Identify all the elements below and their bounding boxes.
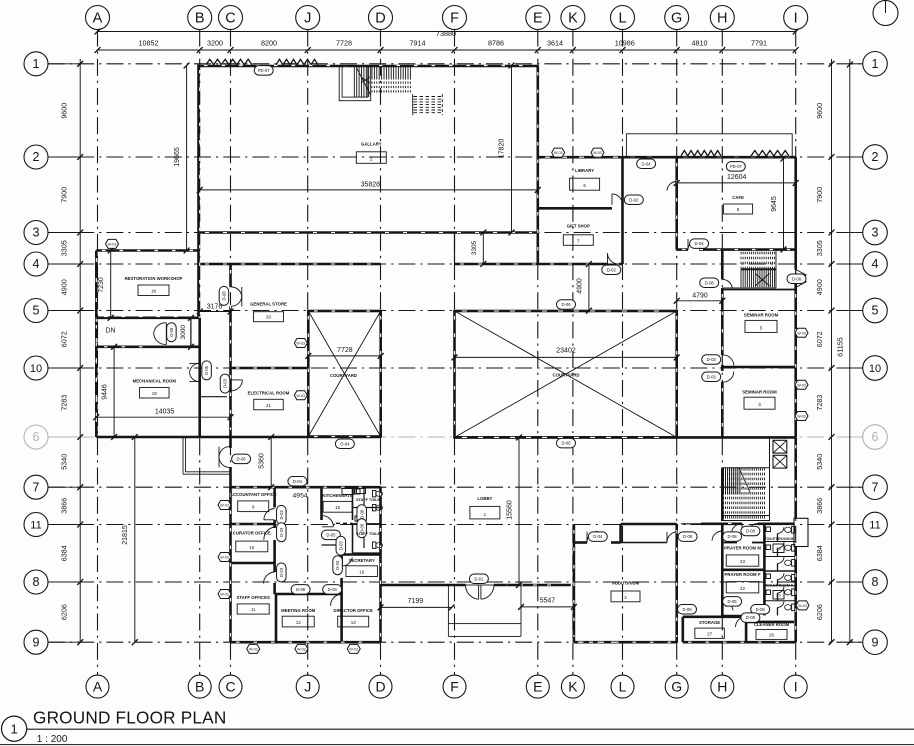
auditorium east wall column G — [675, 524, 678, 642]
svg-text:STORAGE: STORAGE — [699, 620, 720, 625]
svg-text:61155: 61155 — [835, 337, 844, 356]
door kitchenette — [322, 516, 334, 527]
svg-text:1 : 200: 1 : 200 — [37, 734, 68, 745]
svg-text:4954: 4954 — [293, 493, 308, 500]
north arrow symbol — [873, 0, 898, 26]
svg-text:W-03: W-03 — [297, 342, 306, 346]
room storage — [695, 620, 725, 638]
offices corridor west wall — [273, 487, 276, 594]
svg-text:1: 1 — [33, 57, 40, 71]
svg-text:D-08: D-08 — [222, 291, 227, 301]
dim 12604 cafe — [674, 174, 799, 186]
svg-text:TOILET ROOM M: TOILET ROOM M — [765, 537, 794, 541]
svg-text:D: D — [375, 678, 385, 694]
room prayer F — [725, 572, 761, 593]
restoration workshop north wall — [96, 249, 198, 252]
svg-text:L: L — [618, 11, 626, 27]
svg-text:D-03: D-03 — [335, 560, 340, 570]
svg-text:G: G — [671, 11, 682, 27]
door tags horizontal — [232, 66, 806, 623]
row4 wall F-L giftshop south — [455, 263, 623, 266]
east stair exit bump — [794, 518, 808, 546]
svg-text:5: 5 — [33, 304, 40, 318]
svg-text:7728: 7728 — [336, 39, 352, 48]
row2 wall library & cafe front — [538, 156, 796, 159]
left grid bubbles — [24, 52, 80, 654]
svg-text:1: 1 — [872, 57, 879, 71]
door prayer M — [732, 523, 743, 534]
svg-text:W-03: W-03 — [797, 415, 806, 419]
entry vestibule rows6-7 — [183, 437, 231, 474]
dim 14035 mech — [93, 409, 233, 421]
auditorium north wall — [574, 541, 621, 544]
dim 4954 text — [293, 493, 308, 500]
svg-text:10: 10 — [249, 545, 255, 550]
svg-text:I: I — [794, 678, 798, 694]
west wall column B rows 1-5 — [197, 65, 200, 317]
wall column B rows5-6 — [198, 318, 201, 437]
svg-text:D-05: D-05 — [326, 533, 336, 538]
svg-text:W-03: W-03 — [797, 331, 806, 335]
svg-text:D-04: D-04 — [340, 441, 350, 446]
svg-text:D-08: D-08 — [746, 615, 756, 620]
dim 9446 — [102, 344, 118, 440]
svg-text:3176: 3176 — [207, 303, 223, 310]
svg-text:13: 13 — [351, 620, 357, 625]
svg-text:A: A — [93, 678, 103, 694]
label toilet room F — [765, 584, 794, 600]
svg-text:E: E — [533, 11, 543, 27]
exterior top wall B-E — [200, 65, 538, 68]
svg-text:ELECTRICAL ROOM: ELECTRICAL ROOM — [248, 390, 290, 395]
svg-text:AUDITORIUM: AUDITORIUM — [612, 581, 640, 586]
door gift shop — [608, 253, 619, 264]
library-giftshop divider — [538, 194, 623, 209]
svg-text:W-03: W-03 — [349, 647, 358, 651]
kitchenette west wall — [320, 487, 323, 515]
svg-text:CLEANER ROOM: CLEANER ROOM — [754, 622, 790, 627]
svg-text:PRAYER ROOM F: PRAYER ROOM F — [725, 572, 761, 577]
svg-text:3: 3 — [872, 226, 879, 240]
room gallery — [356, 142, 386, 164]
svg-text:D-08: D-08 — [728, 534, 738, 539]
door cafe south — [688, 239, 699, 250]
entrance double door — [465, 585, 494, 599]
column grid lines A B C J D F E K L G H I — [98, 30, 796, 676]
svg-text:23402: 23402 — [556, 348, 576, 355]
svg-text:14035: 14035 — [155, 409, 175, 416]
svg-text:24: 24 — [776, 546, 781, 551]
svg-text:6384: 6384 — [815, 545, 824, 561]
svg-text:12604: 12604 — [727, 174, 747, 181]
svg-text:D-08: D-08 — [682, 607, 692, 612]
svg-text:B: B — [195, 11, 205, 27]
svg-text:GROUND FLOOR PLAN: GROUND FLOOR PLAN — [33, 708, 226, 728]
dim 35828 gallery — [197, 182, 541, 193]
window tags W-03 — [106, 239, 810, 653]
washroom north wall row11 — [681, 523, 794, 525]
svg-text:SEMINAR ROOM: SEMINAR ROOM — [744, 313, 779, 318]
secretary room walls — [342, 555, 381, 595]
curator south wall — [231, 562, 275, 565]
gallery stair — [339, 66, 442, 116]
door library — [612, 194, 623, 205]
room auditorium — [611, 581, 640, 602]
door general store — [231, 287, 242, 306]
meeting room west wall — [275, 594, 278, 642]
dim 19665 — [174, 63, 190, 254]
svg-text:10: 10 — [30, 363, 42, 375]
washroom toilets — [766, 527, 795, 616]
room electrical — [248, 390, 290, 410]
cafe south wall — [677, 248, 796, 251]
column F wall rows3-4 — [454, 233, 456, 265]
svg-text:B: B — [195, 678, 204, 694]
svg-text:6: 6 — [33, 430, 40, 444]
svg-text:J: J — [304, 678, 311, 694]
svg-text:D-05: D-05 — [756, 607, 766, 612]
svg-text:27: 27 — [707, 631, 713, 636]
svg-text:PD-07: PD-07 — [730, 164, 743, 169]
room staff offices — [237, 595, 270, 614]
svg-text:D-03: D-03 — [279, 567, 284, 577]
svg-text:9600: 9600 — [60, 103, 69, 119]
courtyard 2 with X — [455, 311, 677, 437]
svg-text:W-03: W-03 — [554, 151, 563, 155]
seminar divider wall row10 — [722, 366, 795, 369]
svg-text:D-03: D-03 — [223, 378, 228, 388]
label DN — [105, 328, 115, 335]
room seminar1 — [744, 313, 779, 333]
svg-text:CURATOR OFFICE: CURATOR OFFICE — [233, 531, 271, 536]
room seminar2 — [742, 390, 777, 410]
svg-text:21: 21 — [266, 403, 272, 408]
dim 4790 — [674, 292, 725, 303]
door cleaner — [748, 523, 758, 533]
kitchenette counter — [342, 489, 366, 495]
svg-text:21815: 21815 — [122, 525, 129, 545]
dim 3000 — [180, 315, 194, 350]
svg-text:LOBBY: LOBBY — [477, 496, 492, 501]
door seminar1 — [722, 355, 734, 366]
svg-text:W-03: W-03 — [108, 242, 117, 246]
svg-text:35828: 35828 — [361, 182, 381, 189]
dim 9645 cafe — [771, 156, 786, 253]
svg-text:D-08: D-08 — [746, 529, 756, 534]
svg-text:7: 7 — [872, 480, 879, 494]
door mech B — [189, 363, 199, 381]
svg-text:10986: 10986 — [615, 39, 635, 48]
svg-text:C: C — [225, 11, 235, 27]
east wall column I rows6-9 — [794, 437, 797, 642]
svg-text:D-03: D-03 — [279, 510, 284, 520]
svg-text:3200: 3200 — [207, 39, 223, 48]
right grid bubbles — [850, 52, 888, 655]
svg-text:7199: 7199 — [408, 598, 424, 605]
svg-text:2: 2 — [33, 150, 40, 164]
room cafe — [724, 195, 753, 214]
svg-text:7283: 7283 — [60, 395, 69, 411]
bottom grid bubbles — [86, 675, 807, 698]
svg-text:W-03: W-03 — [297, 394, 306, 398]
svg-text:7900: 7900 — [815, 187, 824, 203]
svg-text:D-05: D-05 — [204, 365, 209, 375]
cafe west wall column G — [675, 157, 678, 249]
shaft boxes — [773, 440, 787, 468]
stair landing wall seminar — [722, 289, 795, 291]
dim 5547 — [518, 598, 577, 610]
svg-text:D-04: D-04 — [642, 161, 652, 166]
svg-text:TOILET ROOM F: TOILET ROOM F — [765, 584, 794, 588]
row grid lines 1 2 3 4 5 10 6 7 11 8 9 — [48, 64, 863, 642]
svg-text:6206: 6206 — [815, 604, 824, 620]
svg-text:GIFT SHOP: GIFT SHOP — [567, 223, 590, 228]
svg-text:H: H — [717, 11, 727, 27]
storage west wall — [681, 617, 684, 642]
svg-text:PRAYER ROOM M: PRAYER ROOM M — [724, 545, 761, 550]
door secretary — [342, 558, 353, 567]
svg-text:17820: 17820 — [499, 139, 506, 159]
svg-text:C: C — [225, 678, 235, 694]
svg-text:I: I — [794, 11, 798, 27]
washroom south walls — [683, 615, 794, 642]
prayer M north wall — [722, 542, 764, 544]
svg-text:8200: 8200 — [261, 39, 277, 48]
column H wall rows4-6 — [721, 249, 724, 437]
svg-text:D-06: D-06 — [237, 457, 247, 462]
offices north wall row7 — [231, 486, 381, 489]
door washroom west1 — [712, 531, 722, 541]
svg-text:W-03: W-03 — [297, 647, 306, 651]
east stair rows3-4 — [722, 250, 776, 288]
svg-text:1: 1 — [10, 722, 17, 737]
svg-text:3866: 3866 — [815, 498, 824, 514]
svg-text:K: K — [568, 678, 578, 694]
door tags vertical — [167, 286, 367, 582]
cafe canopy outline — [626, 134, 792, 157]
svg-text:DIRECTOR OFFICE: DIRECTOR OFFICE — [334, 608, 373, 613]
svg-text:H: H — [717, 678, 727, 694]
door corridor G row3 — [667, 181, 677, 190]
svg-text:W-03: W-03 — [220, 556, 229, 560]
dim 21815 — [122, 434, 138, 645]
svg-text:W-03: W-03 — [249, 647, 258, 651]
column C wall rows6-9 — [229, 437, 232, 642]
door stairE west — [722, 279, 732, 287]
svg-text:ACCOUNTANT OFFICE: ACCOUNTANT OFFICE — [230, 492, 277, 497]
svg-text:F: F — [450, 11, 459, 27]
grand stair — [722, 437, 769, 521]
svg-text:D-03: D-03 — [279, 527, 284, 537]
svg-text:K: K — [568, 11, 578, 27]
svg-text:12: 12 — [296, 620, 302, 625]
svg-text:3000: 3000 — [180, 325, 187, 340]
right dimension lines 61155 — [815, 59, 853, 645]
svg-text:W-03: W-03 — [220, 504, 229, 508]
svg-text:7728: 7728 — [337, 347, 353, 354]
svg-text:DN: DN — [105, 328, 115, 335]
zigzag glazing top wall west group — [206, 59, 252, 65]
dim 3176 — [197, 303, 234, 314]
svg-text:LIBRARY: LIBRARY — [575, 168, 594, 173]
svg-text:3305: 3305 — [60, 240, 69, 256]
svg-text:STAFF TOILET: STAFF TOILET — [356, 498, 383, 502]
window tag hexagons on row2 wall — [552, 148, 604, 157]
svg-text:4790: 4790 — [692, 292, 708, 299]
svg-text:20: 20 — [266, 315, 272, 320]
auditorium vestibule — [621, 524, 677, 543]
staff toilet walls — [353, 487, 381, 553]
svg-text:22: 22 — [740, 586, 746, 591]
room restoration workshop — [125, 276, 183, 296]
svg-text:7283: 7283 — [815, 395, 824, 411]
door workshop double — [154, 323, 167, 345]
svg-text:9645: 9645 — [771, 196, 778, 212]
dim 3305 interior — [471, 230, 486, 267]
closet walls by workshop — [190, 318, 192, 347]
svg-text:23: 23 — [740, 559, 746, 564]
svg-text:9: 9 — [872, 635, 879, 649]
washroom west wall H — [721, 523, 724, 616]
dim 15560 — [507, 434, 522, 587]
svg-text:D-04: D-04 — [695, 241, 705, 246]
svg-text:GALLARY: GALLARY — [361, 142, 382, 147]
svg-text:26: 26 — [769, 632, 775, 637]
south wall auditorium-washrooms row9 — [683, 641, 796, 644]
room mechanical — [133, 379, 177, 399]
row3 wall B-E — [200, 231, 538, 234]
svg-text:COURTYARD: COURTYARD — [330, 373, 357, 378]
courtyard2 label — [552, 372, 579, 377]
svg-text:7900: 7900 — [60, 187, 69, 203]
dim 17820 — [499, 63, 515, 236]
svg-text:10: 10 — [869, 363, 881, 375]
svg-text:W-03: W-03 — [797, 383, 806, 387]
svg-text:D-06: D-06 — [561, 441, 571, 446]
svg-text:W-03: W-03 — [220, 593, 229, 597]
svg-text:KITCHENNATE: KITCHENNATE — [322, 493, 353, 498]
svg-text:18: 18 — [151, 289, 157, 294]
svg-text:RESTORATION WORKSHOP: RESTORATION WORKSHOP — [125, 276, 183, 281]
svg-text:15: 15 — [335, 505, 341, 510]
svg-text:9: 9 — [33, 635, 40, 649]
room director — [334, 608, 373, 627]
svg-text:D-08: D-08 — [359, 509, 364, 519]
dim 7728 courtyard1 — [305, 347, 383, 359]
svg-text:5360: 5360 — [259, 453, 266, 469]
room cleaner — [754, 622, 790, 640]
svg-text:4: 4 — [872, 257, 879, 271]
row6 wall F-I — [455, 436, 796, 439]
svg-text:15560: 15560 — [507, 500, 514, 520]
svg-text:SEMINAR ROOM: SEMINAR ROOM — [742, 390, 777, 395]
svg-text:8: 8 — [33, 575, 40, 589]
auditorium west wall — [573, 524, 576, 642]
door seminar2 — [722, 372, 734, 383]
column C wall rows4-6 — [229, 264, 232, 437]
svg-text:D-03: D-03 — [707, 374, 717, 379]
svg-text:D-03: D-03 — [328, 587, 338, 592]
svg-text:D-04: D-04 — [293, 479, 303, 484]
room prayer M — [724, 545, 761, 566]
svg-text:D-06: D-06 — [561, 302, 571, 307]
svg-text:3866: 3866 — [60, 498, 69, 514]
svg-text:4810: 4810 — [692, 39, 708, 48]
svg-text:D-02: D-02 — [629, 197, 639, 202]
door director — [330, 594, 341, 606]
top segment dimensions — [95, 39, 799, 53]
svg-text:D-05: D-05 — [338, 540, 343, 550]
mechanical room north wall — [96, 345, 198, 348]
room kitchennate — [322, 493, 353, 512]
svg-text:19: 19 — [152, 391, 158, 396]
door storage — [736, 617, 747, 627]
svg-text:D-03: D-03 — [707, 357, 717, 362]
label toilet room M — [765, 537, 794, 553]
svg-text:9446: 9446 — [102, 384, 109, 400]
courtyard 1 with X — [308, 311, 380, 437]
svg-text:3305: 3305 — [471, 240, 478, 255]
svg-text:W-03: W-03 — [593, 151, 602, 155]
top grid bubbles — [86, 6, 808, 30]
meeting-director divider — [340, 594, 343, 642]
east wall column I rows2-4 — [794, 157, 797, 437]
door staff offices — [264, 572, 275, 584]
east gallery wall column E rows 1-4 — [536, 66, 539, 265]
accountant south wall row11 — [231, 523, 275, 526]
svg-text:7: 7 — [33, 480, 40, 494]
label staff toilet 1 — [356, 498, 383, 502]
svg-text:GENERAL STORE: GENERAL STORE — [250, 301, 287, 306]
overall top dimension 73880 — [95, 29, 799, 39]
courtyard1 label — [330, 373, 357, 378]
svg-text:9600: 9600 — [815, 103, 824, 119]
door east exit flaps — [796, 270, 807, 288]
offices east wall column D — [379, 487, 382, 642]
svg-text:W-03: W-03 — [798, 604, 807, 608]
svg-text:6072: 6072 — [815, 331, 824, 347]
svg-text:10852: 10852 — [139, 39, 159, 48]
svg-text:4900: 4900 — [815, 279, 824, 295]
door curator — [264, 527, 275, 540]
svg-text:D-04: D-04 — [593, 534, 603, 539]
svg-text:25: 25 — [776, 593, 781, 598]
room general store — [250, 301, 287, 321]
electrical room north wall row10 — [231, 367, 309, 370]
svg-text:D-05: D-05 — [728, 599, 738, 604]
svg-text:STAFF TOILET: STAFF TOILET — [356, 532, 383, 536]
door auditorium north — [587, 532, 598, 543]
zigzag glazing cafe wall west — [681, 151, 721, 157]
svg-text:SECRETARY: SECRETARY — [349, 558, 375, 563]
entrance vestibule steps — [448, 585, 521, 636]
svg-text:CAFE: CAFE — [732, 195, 744, 200]
workshop south wall — [96, 316, 198, 319]
svg-text:73880: 73880 — [436, 29, 456, 38]
zigzag glazing top wall east group — [276, 59, 318, 65]
dim 23402 courtyard2 — [452, 348, 680, 361]
room lobby — [470, 496, 500, 519]
svg-text:4900: 4900 — [577, 278, 584, 294]
label staff toilet 2 — [356, 532, 383, 536]
dim 5360 — [259, 434, 275, 490]
svg-text:D-08: D-08 — [169, 327, 174, 337]
svg-text:STAFF OFFICES: STAFF OFFICES — [237, 595, 270, 600]
svg-text:11: 11 — [30, 520, 41, 532]
room secretary — [346, 558, 378, 577]
mech room door jog wall — [200, 396, 227, 398]
room meeting — [281, 608, 316, 627]
